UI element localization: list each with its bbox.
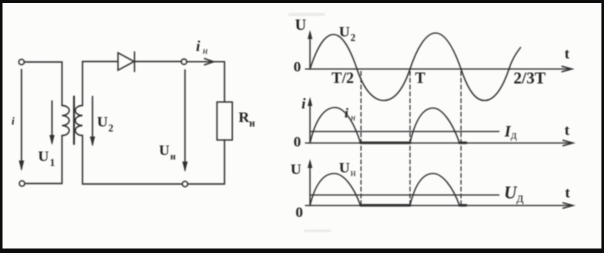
node B (bottom output node) — [182, 181, 187, 186]
dashed time marker 3/2T — [460, 72, 462, 206]
svg-text:0: 0 — [294, 60, 302, 76]
svg-text:н: н — [249, 119, 255, 130]
voltage arrow U2 — [90, 97, 95, 147]
voltage zero segment — [361, 204, 411, 207]
plot2 t-axis — [306, 140, 574, 145]
svg-text:2: 2 — [351, 33, 356, 44]
svg-text:t: t — [565, 186, 570, 202]
svg-text:i: i — [345, 107, 349, 122]
svg-text:н: н — [203, 46, 208, 57]
input terminal top — [19, 59, 24, 64]
wire: down to resistor — [224, 62, 226, 102]
svg-text:U: U — [159, 143, 170, 159]
wire: resistor to bottom wire — [188, 140, 225, 184]
wire: diode to node A — [135, 61, 182, 63]
svg-text:н: н — [351, 114, 356, 124]
voltage zero tail — [460, 204, 467, 207]
current hump 2 — [410, 108, 460, 143]
svg-text:T/2: T/2 — [332, 70, 355, 87]
node A (top output node) — [181, 59, 186, 64]
svg-text:2/3T: 2/3T — [514, 69, 546, 88]
diode VD1 — [118, 53, 134, 70]
input current arrow i — [19, 70, 24, 172]
svg-text:U: U — [38, 149, 49, 165]
wire: secondary winding to diode — [83, 62, 118, 106]
average voltage level line Ud — [310, 194, 499, 196]
svg-text:д: д — [511, 128, 517, 142]
svg-text:t: t — [565, 47, 570, 63]
svg-text:д: д — [517, 191, 524, 206]
svg-text:R: R — [239, 110, 250, 126]
voltage arrow U1 — [49, 101, 54, 145]
transformer T1 secondary winding — [75, 106, 82, 136]
resistor RH — [217, 102, 232, 140]
svg-text:T: T — [415, 70, 426, 87]
voltage hump 1 — [310, 174, 361, 206]
plot3 t-axis — [306, 203, 574, 208]
svg-text:t: t — [565, 123, 570, 139]
current zero tail — [460, 142, 467, 145]
svg-text:н: н — [351, 168, 357, 179]
wire: node A to resistor top corner, with current arrow iH — [187, 59, 225, 65]
border frame top — [0, 0, 604, 3]
sine wave U2 — [310, 33, 521, 101]
svg-text:U: U — [291, 162, 302, 178]
svg-text:U: U — [295, 17, 306, 34]
plot3 y-axis U — [308, 159, 313, 206]
wire: primary winding to bottom terminal — [25, 136, 62, 184]
plot2 y-axis i — [308, 97, 313, 143]
svg-text:0: 0 — [296, 205, 304, 221]
plot1 y-axis U — [308, 30, 313, 69]
border frame right — [601, 0, 604, 253]
wire: top terminal to primary winding — [24, 62, 62, 106]
diode VD1 cathode bar — [134, 52, 136, 72]
current zero segment — [361, 142, 411, 145]
scan artifact smudge top — [288, 13, 325, 16]
svg-text:U: U — [339, 25, 350, 41]
average current level line Id — [310, 131, 499, 133]
plot1 t-axis — [306, 66, 573, 71]
voltage hump 2 — [410, 174, 460, 206]
wire: node B to secondary winding bottom — [83, 136, 183, 185]
transformer T1 core — [73, 97, 75, 145]
svg-text:0: 0 — [294, 135, 302, 151]
svg-text:2: 2 — [108, 124, 113, 135]
dashed time marker T/2 — [360, 72, 362, 206]
svg-text:н: н — [170, 153, 176, 163]
input terminal bottom — [19, 181, 24, 186]
svg-text:1: 1 — [50, 158, 55, 169]
border frame bottom — [0, 249, 604, 254]
current hump 1 — [310, 108, 361, 144]
border frame left — [0, 0, 3, 253]
svg-text:U: U — [339, 161, 350, 177]
scan artifact smudge bottom — [304, 230, 331, 233]
voltage arrow UH — [182, 70, 187, 172]
transformer T1 primary winding — [62, 106, 69, 136]
dashed time marker T — [409, 72, 411, 206]
svg-text:U: U — [97, 115, 108, 131]
